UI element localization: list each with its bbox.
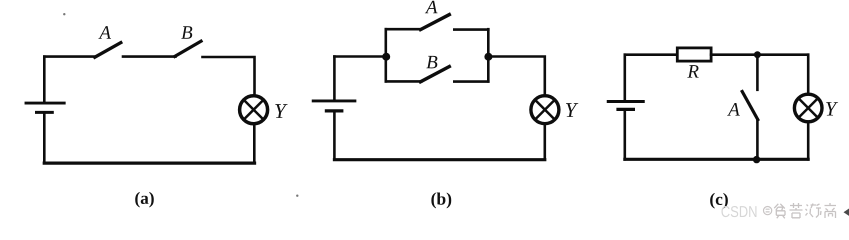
watermark char 贫 <box>774 204 785 219</box>
wire: (c) switch top stub <box>756 55 759 90</box>
wire: (b) top from battery to left node <box>334 55 385 58</box>
wire: (b) lamp bottom to corner <box>543 124 546 160</box>
lamp Y (c) circle <box>794 94 822 122</box>
wire: (c) switch bottom to bottom node <box>756 120 759 160</box>
label A (switch A, circuit c) <box>727 103 740 116</box>
switch A blade (c) <box>742 92 758 120</box>
wire: (b) upper branch left segment <box>386 28 422 31</box>
node: (b) left junction dot <box>382 53 390 61</box>
wire: (a) left vertical top <box>43 57 46 101</box>
node: (b) right junction dot <box>484 53 492 61</box>
wire: (b) upper branch right segment <box>454 28 488 31</box>
battery (c) long plate <box>608 100 643 103</box>
wire: (b) left vertical top <box>333 57 336 100</box>
wire: (a) top from battery to switch A <box>44 55 95 58</box>
label B (switch B, circuit a) <box>181 26 192 38</box>
wire: (c) top from battery to resistor <box>625 53 678 56</box>
wire: (b) left branch vertical <box>384 29 387 81</box>
battery (b) short plate <box>326 109 341 112</box>
lamp Y (b) cross <box>535 100 555 120</box>
label Y (lamp, circuit a) <box>275 104 287 118</box>
wire: (c) left vertical bottom <box>623 111 626 159</box>
watermark CSDN text <box>721 206 756 217</box>
wire: (b) left vertical bottom <box>333 113 336 160</box>
label B (switch B, circuit b) <box>426 56 437 68</box>
wire: (c) bottom <box>625 158 808 161</box>
wire: (b) right branch vertical <box>487 29 490 81</box>
switch A blade (a) <box>95 43 121 58</box>
wire: (a) lamp bottom to corner <box>253 124 256 164</box>
node: (c) top junction dot <box>754 51 761 58</box>
label Y (lamp, circuit b) <box>566 103 578 117</box>
label Y (lamp, circuit c) <box>826 102 838 115</box>
wire: (b) lower branch left segment <box>386 80 422 83</box>
wire: (c) left vertical top <box>623 55 626 100</box>
battery (a) short plate <box>37 111 53 114</box>
switch A blade (b) <box>421 15 450 30</box>
wire: (b) lower branch right segment <box>454 80 488 83</box>
caption (b) <box>431 192 451 208</box>
switch B blade (a) <box>175 41 201 56</box>
label A (switch A, circuit b) <box>425 1 438 14</box>
wire: (a) left vertical bottom <box>43 114 46 163</box>
resistor R (c) body <box>677 48 711 61</box>
lamp Y (a) cross <box>244 100 264 120</box>
speck top left area <box>63 13 65 15</box>
wire: (b) bottom <box>334 158 544 161</box>
caption (a) <box>135 192 154 208</box>
lamp Y (b) circle <box>531 96 559 124</box>
wire: (c) right vertical down to lamp <box>807 55 810 95</box>
wire: (b) right node to corner and down to lamp <box>488 57 545 96</box>
lamp Y (c) cross <box>799 98 818 117</box>
watermark char 商 <box>825 203 837 218</box>
wire: (c) resistor to top-right corner <box>711 53 808 56</box>
wire: (c) lamp bottom to corner <box>807 122 810 160</box>
battery (c) short plate <box>618 108 633 111</box>
label R (resistor, circuit c) <box>687 65 698 77</box>
watermark right arrow mark <box>844 209 849 216</box>
caption (c) <box>710 193 728 209</box>
watermark @ icon <box>764 207 772 215</box>
watermark char 苦 <box>790 203 803 218</box>
battery (b) long plate <box>313 99 355 102</box>
label A (switch A, circuit a) <box>98 26 111 39</box>
watermark char 游 <box>806 204 822 218</box>
wire: (a) between switch A and switch B <box>123 55 176 58</box>
wire: (a) top right to corner and down to lamp <box>203 57 255 96</box>
lamp Y (a) circle <box>240 96 268 124</box>
wire: (a) bottom <box>44 161 254 164</box>
node: (c) bottom junction dot <box>753 156 760 163</box>
battery (a) long plate <box>26 102 64 105</box>
speck right of circuit a caption <box>296 195 298 197</box>
switch B blade (b) <box>421 67 450 82</box>
